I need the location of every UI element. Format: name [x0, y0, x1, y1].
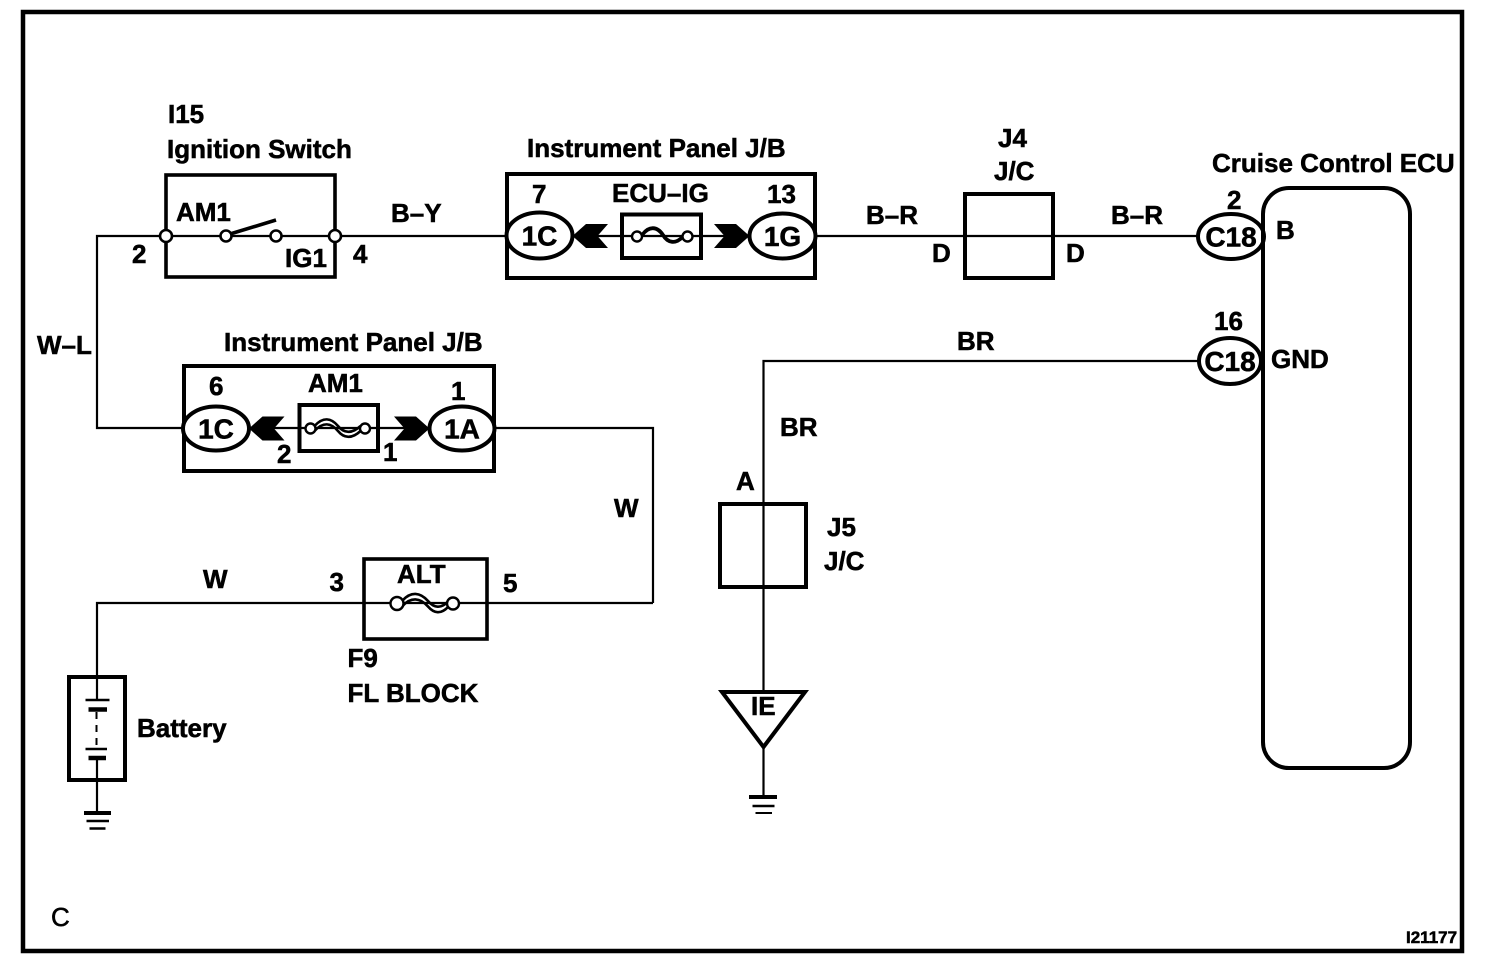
connector 1A (pin 1)	[430, 407, 495, 451]
label AM1 fuse	[308, 368, 363, 398]
svg-text:Instrument Panel J/B: Instrument Panel J/B	[527, 133, 786, 163]
label BR (vertical)	[780, 412, 818, 442]
svg-text:1G: 1G	[764, 221, 801, 252]
svg-text:J4: J4	[998, 123, 1027, 153]
label B-Y	[391, 198, 442, 228]
svg-text:3: 3	[330, 567, 344, 597]
junction connector J4 box	[965, 194, 1053, 278]
svg-text:1C: 1C	[198, 414, 234, 445]
svg-text:FL BLOCK: FL BLOCK	[348, 678, 479, 708]
svg-text:J5: J5	[827, 512, 856, 542]
svg-text:13: 13	[767, 179, 796, 209]
connector C18 pin 16	[1199, 338, 1261, 384]
svg-text:AM1: AM1	[308, 368, 363, 398]
junction connector J4 labels	[994, 123, 1035, 186]
svg-text:I15: I15	[168, 99, 204, 129]
figure number I21177	[1406, 928, 1457, 947]
label W-L	[37, 330, 92, 360]
label W (vertical wire)	[614, 493, 639, 523]
Instrument Panel J/B (AM1) title	[224, 327, 483, 357]
fusible link ALT box	[364, 559, 487, 639]
label IG1 inside switch	[285, 243, 327, 273]
svg-text:2: 2	[1227, 185, 1241, 215]
wire W from battery through ALT fusible link	[97, 603, 653, 677]
wire BR from junction down through J5 to IE ground	[764, 361, 1200, 692]
svg-text:B–R: B–R	[866, 200, 918, 230]
wire W-L from ignition switch pin 2 down to Instrument Panel J/B 1C	[97, 236, 184, 428]
pin 4 label	[353, 239, 368, 269]
label W (horizontal wire)	[203, 564, 228, 594]
wire battery to ground	[96, 780, 98, 812]
svg-text:BR: BR	[957, 326, 995, 356]
svg-text:2: 2	[132, 239, 146, 269]
ground (IE)	[749, 797, 777, 813]
svg-text:2: 2	[277, 439, 291, 469]
label AM1 inside switch	[176, 197, 231, 227]
svg-text:AM1: AM1	[176, 197, 231, 227]
svg-text:1: 1	[451, 376, 465, 406]
svg-text:Battery: Battery	[137, 713, 227, 743]
wire IE to ground	[762, 747, 764, 796]
arrow (right) at 1G	[714, 224, 750, 248]
wire B-R from 1G pin 13 through J4 to C18 pin 2	[815, 235, 1199, 237]
svg-text:C: C	[51, 902, 70, 932]
svg-text:1: 1	[383, 437, 397, 467]
svg-text:A: A	[736, 466, 755, 496]
Instrument Panel J/B (ECU-IG) title	[527, 133, 786, 163]
connector 1C (pin 6)	[183, 407, 249, 451]
switch blade	[230, 220, 276, 234]
fuse AM1	[300, 405, 379, 451]
svg-text:D: D	[932, 238, 951, 268]
svg-text:D: D	[1066, 238, 1085, 268]
svg-text:J/C: J/C	[824, 546, 865, 576]
svg-text:5: 5	[503, 568, 517, 598]
svg-text:IE: IE	[751, 691, 776, 721]
pin 2 label	[132, 239, 146, 269]
svg-text:1C: 1C	[522, 221, 558, 252]
svg-text:B: B	[1276, 215, 1295, 245]
label B-R right of J4	[1111, 200, 1163, 230]
arrow (left) at 1C second	[249, 417, 285, 441]
svg-text:W: W	[203, 564, 228, 594]
pin 16 label	[1214, 306, 1243, 336]
svg-text:1A: 1A	[444, 414, 480, 445]
switch contact IG1	[271, 231, 282, 242]
page letter C	[51, 902, 70, 932]
label B-R left of J4	[866, 200, 918, 230]
svg-text:C18: C18	[1205, 222, 1256, 253]
switch terminal pin 4	[329, 230, 341, 242]
label BR (horizontal)	[957, 326, 995, 356]
svg-text:6: 6	[209, 371, 223, 401]
svg-text:Instrument Panel J/B: Instrument Panel J/B	[224, 327, 483, 357]
Instrument Panel J/B (ECU-IG) box	[507, 174, 815, 278]
label B	[1276, 215, 1295, 245]
Instrument Panel J/B (AM1) box	[184, 366, 494, 471]
Cruise Control ECU box	[1263, 188, 1410, 768]
wire B-Y from ignition switch pin 4 to Instrument Panel J/B pin 7	[335, 235, 507, 237]
svg-text:C18: C18	[1204, 346, 1255, 377]
label Battery	[137, 713, 227, 743]
connector 1G (pin 13)	[750, 214, 816, 259]
pin 3 label	[330, 567, 344, 597]
svg-text:GND: GND	[1271, 344, 1329, 374]
junction connector J5 box	[720, 504, 806, 587]
svg-text:B–R: B–R	[1111, 200, 1163, 230]
pin 5 label	[503, 568, 517, 598]
labels J5 J/C	[824, 512, 865, 576]
switch contact AM1	[221, 231, 232, 242]
wire from 1A down to FL block	[494, 428, 653, 603]
pin 2 label (below)	[277, 439, 291, 469]
svg-text:16: 16	[1214, 306, 1243, 336]
svg-text:F9: F9	[348, 643, 378, 673]
svg-text:J/C: J/C	[994, 156, 1035, 186]
pin 13 label	[767, 179, 796, 209]
svg-text:ALT: ALT	[397, 559, 446, 589]
pin 2 label at C18	[1227, 185, 1241, 215]
ignition switch I15 labels	[167, 99, 352, 164]
svg-text:Ignition Switch: Ignition Switch	[167, 134, 352, 164]
svg-text:IG1: IG1	[285, 243, 327, 273]
battery	[69, 677, 125, 780]
connector C18 pin 2	[1198, 214, 1264, 259]
ground triangle IE	[722, 691, 805, 747]
ground (battery)	[84, 813, 111, 829]
switch terminal pin 2	[160, 230, 172, 242]
svg-text:W: W	[614, 493, 639, 523]
label F9 FL BLOCK	[348, 643, 479, 708]
svg-text:ECU–IG: ECU–IG	[612, 178, 709, 208]
arrow (left) at 1C	[573, 224, 609, 248]
svg-text:W–L: W–L	[37, 330, 92, 360]
pin 6 label	[209, 371, 223, 401]
Cruise Control ECU title	[1212, 148, 1455, 178]
pin 1 label (below)	[383, 437, 397, 467]
svg-text:Cruise Control ECU: Cruise Control ECU	[1212, 148, 1455, 178]
label D right of J4	[1066, 238, 1085, 268]
label ALT	[397, 559, 446, 589]
fuse ECU-IG	[622, 215, 701, 259]
svg-text:B–Y: B–Y	[391, 198, 442, 228]
pin 1 label (top)	[451, 376, 465, 406]
ignition switch I15 box	[166, 175, 335, 277]
pin 7 label	[532, 179, 546, 209]
svg-text:4: 4	[353, 239, 368, 269]
label ECU-IG	[612, 178, 709, 208]
arrow (right) at 1A	[394, 417, 430, 441]
svg-text:I21177: I21177	[1406, 928, 1457, 947]
label D left of J4	[932, 238, 951, 268]
svg-text:BR: BR	[780, 412, 818, 442]
svg-text:7: 7	[532, 179, 546, 209]
label GND	[1271, 344, 1329, 374]
connector 1C (pin 7)	[507, 213, 573, 259]
label A at J5	[736, 466, 755, 496]
